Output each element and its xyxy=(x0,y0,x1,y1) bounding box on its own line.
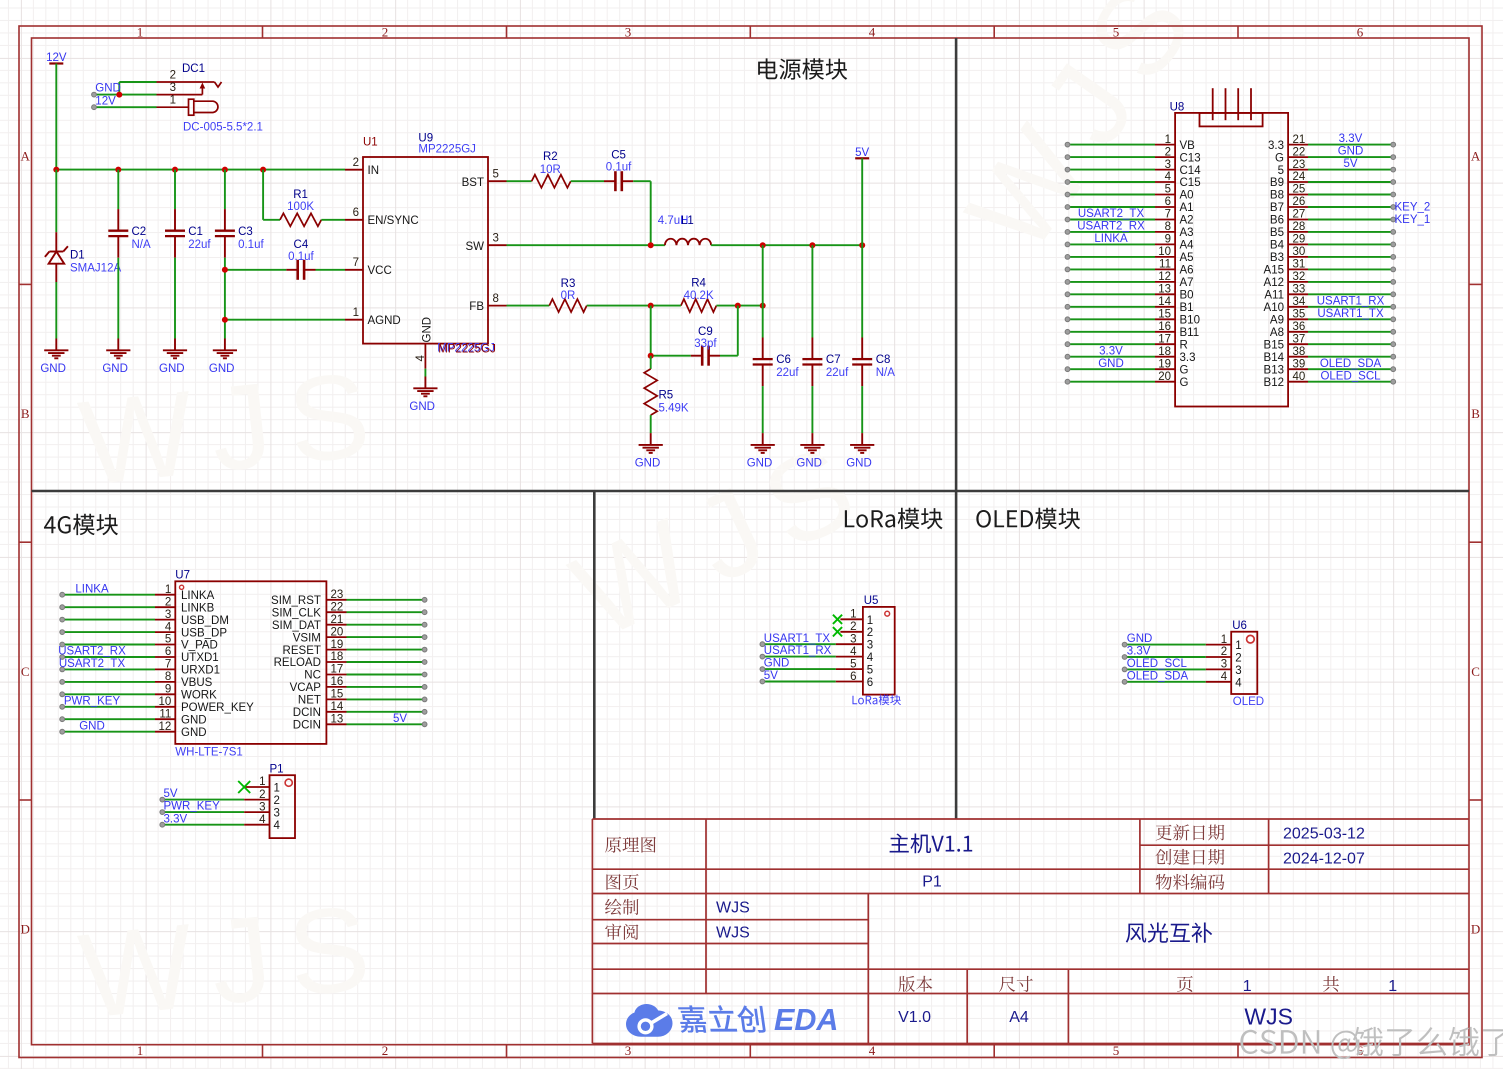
resistor R2 xyxy=(507,151,605,188)
capacitor C1 xyxy=(165,170,211,339)
U8 pin 34 wire xyxy=(1264,295,1396,314)
title label 页 xyxy=(1177,976,1193,992)
U5 pin 3 wire xyxy=(760,633,873,652)
svg-text:MP2225GJ: MP2225GJ xyxy=(438,343,496,355)
svg-text:100K: 100K xyxy=(287,201,314,213)
U7 pin 10 wire xyxy=(60,695,254,714)
svg-text:USART1_TX: USART1_TX xyxy=(1317,308,1384,320)
svg-text:A11: A11 xyxy=(1264,290,1284,302)
capacitor C2 xyxy=(108,170,151,339)
svg-text:B0: B0 xyxy=(1180,290,1194,302)
svg-text:C14: C14 xyxy=(1180,165,1202,177)
junction rail D1 xyxy=(53,167,59,173)
svg-text:GND: GND xyxy=(764,658,790,670)
svg-text:12: 12 xyxy=(1158,271,1171,283)
svg-text:R: R xyxy=(1180,339,1188,351)
junction C3/AGND xyxy=(222,317,228,323)
svg-text:4: 4 xyxy=(1221,671,1228,683)
U7 pin 19 wire xyxy=(283,639,427,657)
svg-text:3: 3 xyxy=(1221,659,1227,671)
svg-text:FB: FB xyxy=(469,301,484,313)
title value page 1 xyxy=(1243,978,1252,995)
svg-text:C13: C13 xyxy=(1180,152,1201,164)
svg-text:GND: GND xyxy=(181,714,207,726)
svg-text:33pf: 33pf xyxy=(694,338,717,350)
svg-text:3: 3 xyxy=(165,609,171,621)
svg-text:A5: A5 xyxy=(1180,252,1194,264)
svg-text:5: 5 xyxy=(1113,25,1120,40)
svg-text:11: 11 xyxy=(1159,259,1171,271)
svg-text:P1: P1 xyxy=(270,764,284,776)
wire 12V rail xyxy=(56,169,345,171)
junction rail C2 xyxy=(115,167,121,173)
svg-text:35: 35 xyxy=(1293,309,1306,321)
ground R5 xyxy=(635,433,663,470)
svg-text:USART1_RX: USART1_RX xyxy=(1317,295,1385,307)
svg-text:3: 3 xyxy=(1235,665,1241,677)
svg-text:WH-LTE-7S1: WH-LTE-7S1 xyxy=(175,747,243,759)
svg-text:1: 1 xyxy=(137,25,144,40)
U8 pin 9 wire xyxy=(1065,233,1194,252)
svg-text:C5: C5 xyxy=(611,149,626,161)
capacitor C5 xyxy=(604,149,651,245)
svg-text:3: 3 xyxy=(850,633,856,645)
capacitor C9 xyxy=(651,306,738,366)
svg-text:DC-005-5.5*2.1: DC-005-5.5*2.1 xyxy=(183,122,263,134)
section divider vertical power/U8 xyxy=(955,38,958,819)
svg-text:GND: GND xyxy=(635,458,661,470)
svg-text:LINKA: LINKA xyxy=(75,583,109,595)
U5 pin 1 wire xyxy=(833,609,873,627)
title label 审阅 xyxy=(605,924,638,940)
junction FB/R3 xyxy=(648,303,654,309)
junction rail R1 xyxy=(260,167,266,173)
junction SW/C5 xyxy=(648,242,654,248)
svg-text:GND: GND xyxy=(159,363,185,375)
svg-text:DCIN: DCIN xyxy=(293,707,321,719)
svg-text:GND: GND xyxy=(95,83,121,95)
svg-text:3: 3 xyxy=(274,808,280,820)
svg-text:L1: L1 xyxy=(681,215,694,227)
svg-text:A0: A0 xyxy=(1180,190,1194,202)
svg-text:U8: U8 xyxy=(1170,102,1185,114)
svg-text:R4: R4 xyxy=(691,278,706,290)
svg-text:6: 6 xyxy=(850,671,856,683)
U8 pin 7 wire xyxy=(1065,208,1193,227)
U8 pin 21 wire xyxy=(1268,133,1396,152)
svg-text:B9: B9 xyxy=(1270,177,1284,189)
U8 pin 1 wire xyxy=(1065,134,1195,152)
U8 pin 31 wire xyxy=(1264,259,1396,277)
svg-text:5: 5 xyxy=(165,634,171,646)
svg-text:5V: 5V xyxy=(164,788,178,800)
svg-text:24: 24 xyxy=(1293,171,1306,183)
svg-text:KEY_1: KEY_1 xyxy=(1395,214,1431,226)
svg-text:USB_DM: USB_DM xyxy=(181,615,229,627)
U8 pin 14 wire xyxy=(1065,296,1193,314)
U7 pin 5 wire xyxy=(60,634,218,652)
section title OLED模块 xyxy=(976,508,1080,529)
svg-text:1: 1 xyxy=(1165,134,1171,146)
U5 pin 6 wire xyxy=(760,670,873,689)
svg-text:A: A xyxy=(21,148,31,163)
svg-text:2: 2 xyxy=(1235,653,1241,665)
U8 pin 40 wire xyxy=(1264,370,1396,389)
svg-text:14: 14 xyxy=(1158,296,1171,308)
U8 pin 26 wire xyxy=(1270,196,1430,214)
svg-text:OLED: OLED xyxy=(1233,696,1264,708)
svg-text:2: 2 xyxy=(382,25,389,40)
svg-text:VBUS: VBUS xyxy=(181,677,213,689)
svg-text:4: 4 xyxy=(274,820,281,832)
svg-text:V1.0: V1.0 xyxy=(898,1009,931,1026)
svg-text:C: C xyxy=(1471,664,1480,679)
svg-text:B15: B15 xyxy=(1264,339,1284,351)
svg-text:39: 39 xyxy=(1293,358,1306,370)
svg-text:VB: VB xyxy=(1180,140,1196,152)
svg-text:6: 6 xyxy=(165,646,171,658)
title label 尺寸 xyxy=(999,976,1033,992)
logo JLC cloud icon xyxy=(626,1004,673,1037)
P1 pin 3 wire xyxy=(160,801,280,820)
svg-text:23: 23 xyxy=(1293,159,1306,171)
svg-text:3: 3 xyxy=(170,82,176,94)
U7 pin 15 wire xyxy=(298,689,427,707)
svg-text:2: 2 xyxy=(165,596,171,608)
power flag 12V xyxy=(46,52,67,170)
ground C8 xyxy=(846,433,874,470)
junction DC1 gnd xyxy=(116,92,122,98)
U8 pin 13 wire xyxy=(1065,284,1193,302)
svg-text:12V: 12V xyxy=(46,52,67,64)
svg-text:2: 2 xyxy=(353,157,359,169)
svg-text:5V: 5V xyxy=(764,670,778,682)
svg-text:B4: B4 xyxy=(1270,240,1285,252)
title value V1.0 xyxy=(898,1009,931,1026)
U8 pin 12 wire xyxy=(1065,271,1193,289)
U5 pin 2 wire xyxy=(833,621,873,639)
svg-text:N/A: N/A xyxy=(132,239,152,251)
svg-text:4: 4 xyxy=(850,646,857,658)
junction FB/VOUT xyxy=(760,303,766,309)
svg-text:USART1_TX: USART1_TX xyxy=(764,633,831,645)
svg-text:21: 21 xyxy=(331,614,344,626)
svg-text:EN/SYNC: EN/SYNC xyxy=(368,215,419,227)
svg-text:37: 37 xyxy=(1293,333,1306,345)
U8 pin 19 wire xyxy=(1065,358,1188,377)
svg-text:GND: GND xyxy=(79,720,105,732)
svg-text:U7: U7 xyxy=(175,570,190,582)
capacitor C3 xyxy=(215,170,265,339)
svg-text:POWER_KEY: POWER_KEY xyxy=(181,702,254,714)
wire AGND xyxy=(225,319,345,321)
title value A4 xyxy=(1009,1009,1029,1026)
svg-text:4: 4 xyxy=(1165,171,1172,183)
svg-text:5.49K: 5.49K xyxy=(659,402,689,414)
svg-text:SW: SW xyxy=(465,241,484,253)
U8 pin 15 wire xyxy=(1065,309,1200,327)
svg-text:SIM_CLK: SIM_CLK xyxy=(272,608,322,620)
svg-text:B10: B10 xyxy=(1180,315,1200,327)
svg-text:34: 34 xyxy=(1293,296,1306,308)
U8 pin 37 wire xyxy=(1264,333,1396,351)
svg-text:V_PAD: V_PAD xyxy=(181,640,218,652)
U6 pin 1 wire xyxy=(1122,633,1241,652)
svg-text:GND: GND xyxy=(181,727,207,739)
U8 pin 24 wire xyxy=(1270,171,1396,189)
svg-text:C6: C6 xyxy=(776,354,791,366)
U8 pin 5 wire xyxy=(1065,184,1193,202)
capacitor C6 xyxy=(753,245,800,433)
svg-text:A12: A12 xyxy=(1264,277,1284,289)
svg-text:3: 3 xyxy=(493,233,499,245)
svg-text:22uf: 22uf xyxy=(776,367,799,379)
svg-text:6: 6 xyxy=(867,677,873,689)
svg-text:10: 10 xyxy=(1158,246,1171,258)
svg-text:15: 15 xyxy=(1158,309,1171,321)
svg-text:1: 1 xyxy=(1221,634,1227,646)
logo text EDA xyxy=(774,1003,838,1037)
svg-text:5V: 5V xyxy=(855,147,869,159)
title label 共 xyxy=(1323,976,1339,992)
title label 版本 xyxy=(899,976,933,992)
title label 绘制 xyxy=(605,899,638,915)
svg-text:5: 5 xyxy=(1165,184,1171,196)
connector U8 body xyxy=(1170,88,1289,406)
svg-text:11: 11 xyxy=(159,708,171,720)
svg-text:VCC: VCC xyxy=(368,265,392,277)
svg-text:1: 1 xyxy=(867,615,873,627)
ground D1 xyxy=(40,339,68,376)
svg-text:16: 16 xyxy=(1158,321,1171,333)
svg-text:B3: B3 xyxy=(1270,252,1284,264)
svg-text:22uf: 22uf xyxy=(826,367,849,379)
svg-text:OLED_SDA: OLED_SDA xyxy=(1320,358,1382,370)
svg-text:4: 4 xyxy=(165,621,172,633)
svg-text:3: 3 xyxy=(1165,159,1171,171)
junction FB/C9 xyxy=(735,303,741,309)
svg-text:A3: A3 xyxy=(1180,227,1194,239)
svg-text:19: 19 xyxy=(331,639,344,651)
svg-text:RELOAD: RELOAD xyxy=(274,657,321,669)
U7 pin 1 wire xyxy=(60,583,215,602)
svg-text:6: 6 xyxy=(353,207,359,219)
svg-text:R1: R1 xyxy=(293,189,308,201)
svg-text:RESET: RESET xyxy=(283,645,321,657)
svg-text:1: 1 xyxy=(850,609,856,621)
svg-text:5: 5 xyxy=(867,665,873,677)
svg-text:3.3V: 3.3V xyxy=(1099,345,1123,357)
svg-text:5: 5 xyxy=(1113,1043,1120,1058)
svg-text:C9: C9 xyxy=(698,326,713,338)
svg-text:D: D xyxy=(21,922,30,937)
junction rail C3 xyxy=(222,167,228,173)
U8 pin 30 wire xyxy=(1270,246,1396,264)
svg-text:USB_DP: USB_DP xyxy=(181,627,227,639)
resistor R3 xyxy=(507,278,651,312)
svg-text:SIM_RST: SIM_RST xyxy=(271,595,321,607)
svg-text:2024-12-07: 2024-12-07 xyxy=(1283,851,1365,868)
U6 pin 3 wire xyxy=(1122,658,1241,677)
svg-text:VSIM: VSIM xyxy=(293,632,321,644)
U8 pin 18 wire xyxy=(1065,345,1195,364)
svg-text:AGND: AGND xyxy=(368,315,401,327)
section divider vertical 4G/LoRa xyxy=(593,491,596,819)
svg-text:2: 2 xyxy=(382,1043,389,1058)
junction VOUT/C6 xyxy=(760,242,766,248)
svg-text:GND: GND xyxy=(1338,146,1364,158)
title value 2025-03-12 xyxy=(1283,826,1365,843)
svg-text:OLED_SCL: OLED_SCL xyxy=(1320,370,1381,382)
svg-text:5: 5 xyxy=(493,169,499,181)
svg-text:USART1_RX: USART1_RX xyxy=(764,645,832,657)
resistor R5 xyxy=(644,356,689,433)
title label 更新日期 xyxy=(1156,824,1225,840)
svg-text:28: 28 xyxy=(1293,221,1306,233)
svg-text:A7: A7 xyxy=(1180,277,1194,289)
connector U5 body xyxy=(852,595,900,705)
svg-text:B6: B6 xyxy=(1270,215,1284,227)
title label 物料编码 xyxy=(1156,874,1225,890)
title label 创建日期 xyxy=(1155,849,1224,865)
svg-text:USART2_RX: USART2_RX xyxy=(58,646,126,658)
svg-text:6: 6 xyxy=(1357,25,1364,40)
svg-text:2: 2 xyxy=(1221,646,1227,658)
U8 pin 10 wire xyxy=(1065,246,1193,264)
svg-text:B7: B7 xyxy=(1270,202,1284,214)
svg-text:3: 3 xyxy=(259,801,265,813)
U7 pin 4 wire xyxy=(60,621,228,639)
svg-text:C15: C15 xyxy=(1180,177,1201,189)
U8 pin 32 wire xyxy=(1264,271,1396,289)
U8 pin 6 wire xyxy=(1065,196,1193,214)
svg-text:B11: B11 xyxy=(1180,327,1200,339)
svg-text:WJS: WJS xyxy=(1244,1004,1293,1030)
U8 pin 20 wire xyxy=(1065,371,1188,389)
svg-text:5: 5 xyxy=(850,658,856,670)
P1 pin 1 wire xyxy=(238,776,280,794)
junction VOUT/C7 xyxy=(809,242,815,248)
title value WJS drawn xyxy=(716,900,750,917)
svg-text:GND: GND xyxy=(102,363,128,375)
svg-text:USART2_TX: USART2_TX xyxy=(59,658,126,670)
svg-text:B: B xyxy=(1471,406,1480,421)
svg-text:6: 6 xyxy=(1165,196,1171,208)
svg-text:1: 1 xyxy=(170,95,176,107)
svg-text:20: 20 xyxy=(331,626,344,638)
svg-text:B1: B1 xyxy=(1180,302,1194,314)
connector P1 body xyxy=(270,764,296,839)
U8 pin 39 wire xyxy=(1264,358,1396,377)
U7 pin 22 wire xyxy=(272,602,427,620)
svg-text:16: 16 xyxy=(331,676,344,688)
svg-text:C3: C3 xyxy=(238,226,253,238)
U7 pin 12 wire xyxy=(60,720,207,739)
junction rail C1 xyxy=(172,167,178,173)
U7 pin 17 wire xyxy=(304,664,427,682)
capacitor C4 xyxy=(225,239,345,280)
svg-text:0.1uf: 0.1uf xyxy=(606,161,632,173)
connector DC1 xyxy=(94,63,263,134)
U6 pin 2 wire xyxy=(1122,646,1241,665)
svg-text:4: 4 xyxy=(415,355,427,362)
svg-text:URXD1: URXD1 xyxy=(181,665,220,677)
svg-text:10R: 10R xyxy=(540,164,561,176)
svg-text:7: 7 xyxy=(165,659,171,671)
watermark CSDN xyxy=(1240,1027,1503,1059)
svg-text:8: 8 xyxy=(1165,221,1171,233)
inductor L1 xyxy=(658,215,711,245)
title value 2024-12-07 xyxy=(1283,851,1365,868)
svg-text:4: 4 xyxy=(867,652,874,664)
ground C3 xyxy=(209,339,237,376)
section title 电源模块 xyxy=(758,58,847,79)
svg-text:SIM_DAT: SIM_DAT xyxy=(272,620,321,632)
diode D1 xyxy=(45,170,122,339)
svg-text:OLED_SDA: OLED_SDA xyxy=(1127,670,1189,682)
svg-text:A: A xyxy=(1471,148,1481,163)
U8 pin 2 wire xyxy=(1065,146,1201,164)
svg-text:D: D xyxy=(1471,922,1480,937)
U8 pin 33 wire xyxy=(1264,284,1395,302)
svg-text:5V: 5V xyxy=(1343,158,1357,170)
svg-text:12: 12 xyxy=(159,721,172,733)
svg-text:R3: R3 xyxy=(561,278,576,290)
svg-text:R2: R2 xyxy=(543,151,558,163)
svg-text:3.3: 3.3 xyxy=(1268,140,1284,152)
svg-text:MP2225GJ: MP2225GJ xyxy=(418,143,476,155)
svg-text:32: 32 xyxy=(1293,271,1306,283)
op-amp U1 (MP2225GJ buck IC) xyxy=(345,133,507,369)
U8 pin 3 wire xyxy=(1065,159,1201,177)
svg-text:VCAP: VCAP xyxy=(290,682,322,694)
svg-text:R5: R5 xyxy=(659,389,674,401)
title value 主机V1.1 xyxy=(890,833,973,853)
svg-text:13: 13 xyxy=(1158,284,1171,296)
U7 pin 3 wire xyxy=(60,609,229,627)
svg-text:31: 31 xyxy=(1293,259,1306,271)
resistor R1 xyxy=(263,170,345,227)
ground C6 xyxy=(747,433,775,470)
svg-text:U6: U6 xyxy=(1232,620,1247,632)
P1 pin 4 wire xyxy=(160,813,281,832)
U8 pin 38 wire xyxy=(1264,346,1396,364)
U5 pin 5 wire xyxy=(760,658,873,677)
wire VOUT xyxy=(711,244,862,246)
svg-text:21: 21 xyxy=(1293,134,1306,146)
svg-text:4: 4 xyxy=(869,1043,876,1058)
svg-text:14: 14 xyxy=(331,701,344,713)
U7 pin 9 wire xyxy=(60,684,217,702)
module U7 body xyxy=(175,570,326,759)
U7 pin 21 wire xyxy=(272,614,427,632)
svg-text:NET: NET xyxy=(298,695,321,707)
svg-text:1: 1 xyxy=(137,1043,144,1058)
ground C1 xyxy=(159,339,187,376)
svg-text:23: 23 xyxy=(331,589,344,601)
svg-text:LINKA: LINKA xyxy=(181,590,215,602)
resistor R4 xyxy=(651,278,763,313)
ground C2 xyxy=(102,339,130,376)
svg-text:18: 18 xyxy=(331,651,344,663)
section title LoRa模块 xyxy=(845,508,943,529)
svg-text:P1: P1 xyxy=(922,874,942,891)
section title 4G模块 xyxy=(44,514,118,535)
svg-text:9: 9 xyxy=(1165,234,1171,246)
svg-text:A1: A1 xyxy=(1180,202,1194,214)
svg-text:2: 2 xyxy=(259,789,265,801)
svg-text:UTXD1: UTXD1 xyxy=(181,652,219,664)
